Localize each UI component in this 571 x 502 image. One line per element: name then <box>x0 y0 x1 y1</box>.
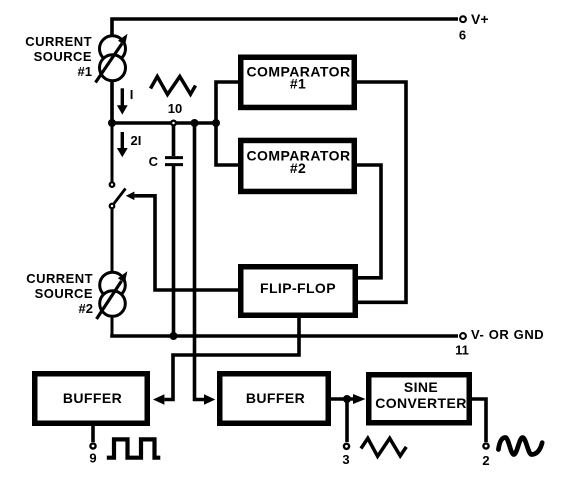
label CURRENT SOURCE #1 <box>25 34 92 79</box>
wire V+ top rail <box>112 19 458 123</box>
arrow 2I <box>117 132 141 157</box>
svg-text:C: C <box>149 154 159 169</box>
node V+ terminal pin 6 <box>459 11 489 43</box>
node junction pin 3 tap <box>343 395 351 403</box>
triangle wave symbol at pin 10 <box>151 77 196 95</box>
wire buffer to sine converter with arrow <box>331 394 366 404</box>
wire comparator #2 output to flip-flop <box>357 165 381 278</box>
wire main node line to comparator bus <box>110 121 216 125</box>
wire pin 9 stub <box>91 426 95 442</box>
svg-text:#1: #1 <box>78 64 92 79</box>
node pin 3 terminal <box>342 444 349 467</box>
wire sine converter to pin 2 <box>472 399 486 442</box>
node junction at comparator bus <box>212 119 220 127</box>
buffer left box <box>35 374 148 424</box>
svg-text:FLIP-FLOP: FLIP-FLOP <box>260 280 336 296</box>
flip-flop box <box>241 267 356 316</box>
svg-text:9: 9 <box>89 451 96 466</box>
wire comparator bus <box>216 82 238 165</box>
svg-text:3: 3 <box>342 452 349 467</box>
buffer middle box <box>220 374 329 424</box>
svg-text:SOURCE: SOURCE <box>35 286 93 301</box>
wire flip-flop output down-left to buffer with arrow <box>153 317 299 405</box>
node main summing node <box>108 119 116 127</box>
node V- terminal pin 11 <box>455 327 544 358</box>
sine converter box <box>369 375 470 423</box>
wire switch to current source 2 to V- rail corner <box>111 208 114 336</box>
current source #2 <box>97 271 128 319</box>
wire triangle output line down to buffer arrow <box>195 123 216 405</box>
current source #1 <box>96 34 128 83</box>
svg-text:6: 6 <box>459 28 466 43</box>
svg-text:SOURCE: SOURCE <box>34 49 92 64</box>
node pin 9 terminal <box>89 443 96 465</box>
svg-text:V- OR GND: V- OR GND <box>471 327 544 342</box>
wire flip-flop to switch control with arrow <box>126 192 238 291</box>
sine wave symbol at pin 2 <box>498 438 542 455</box>
svg-text:BUFFER: BUFFER <box>246 390 305 406</box>
svg-text:CURRENT: CURRENT <box>25 34 92 49</box>
svg-text:BUFFER: BUFFER <box>63 390 122 406</box>
wire left vertical: node to switch <box>111 123 114 183</box>
svg-text:2: 2 <box>482 453 489 468</box>
label pin 10 <box>168 101 182 116</box>
svg-text:I: I <box>130 87 134 102</box>
svg-text:10: 10 <box>168 101 182 116</box>
node junction on main line <box>191 119 199 127</box>
node pin 2 terminal <box>482 443 489 468</box>
label CURRENT SOURCE #2 <box>26 271 93 316</box>
capacitor C <box>149 126 183 336</box>
switch S1 <box>110 182 126 208</box>
node capacitor to V- rail junction <box>170 332 178 340</box>
wire pin 3 stub <box>345 399 349 442</box>
svg-text:11: 11 <box>455 343 469 358</box>
svg-text:2I: 2I <box>131 133 142 148</box>
comparator #1 box <box>241 57 355 107</box>
svg-text:#2: #2 <box>290 160 306 176</box>
svg-text:SINE: SINE <box>404 379 438 395</box>
arrow I <box>117 87 134 115</box>
svg-text:#2: #2 <box>79 301 93 316</box>
svg-text:CURRENT: CURRENT <box>26 271 93 286</box>
wire comparator #1 output to flip-flop <box>357 82 406 302</box>
wire V- rail <box>112 334 458 336</box>
triangle wave symbol at pin 3 <box>361 438 406 456</box>
node pin 10 terminal <box>171 121 176 126</box>
svg-text:V+: V+ <box>471 11 489 27</box>
svg-text:#1: #1 <box>290 76 306 92</box>
svg-text:CONVERTER: CONVERTER <box>375 395 467 411</box>
comparator #2 box <box>241 140 355 191</box>
square wave symbol at pin 9 <box>107 439 161 457</box>
